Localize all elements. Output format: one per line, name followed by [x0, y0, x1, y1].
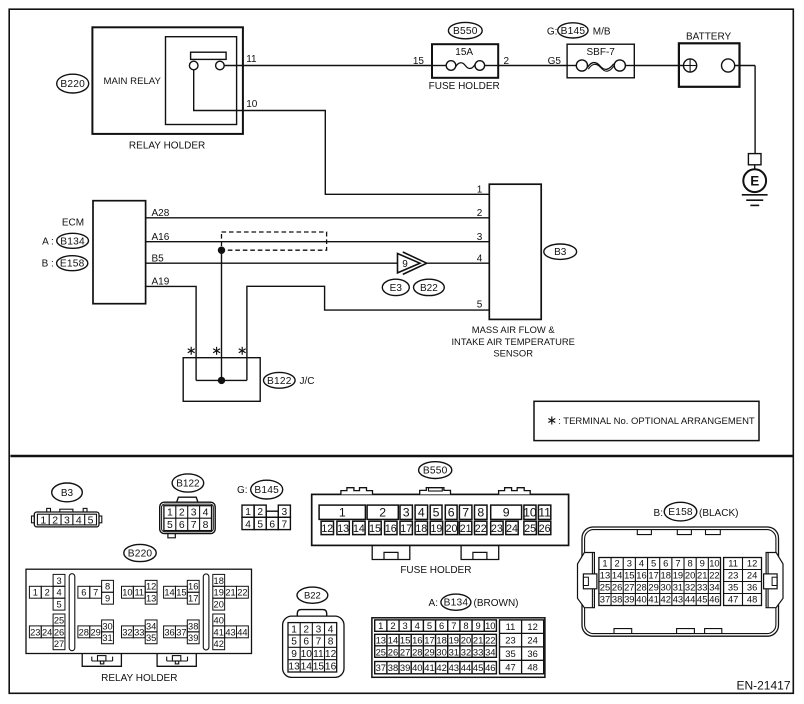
svg-text:14: 14 — [388, 635, 398, 646]
svg-text:24: 24 — [506, 523, 518, 535]
svg-text:B22: B22 — [304, 591, 321, 602]
svg-text:28: 28 — [79, 627, 89, 637]
svg-text:13: 13 — [288, 661, 300, 672]
svg-text:19: 19 — [673, 570, 683, 581]
svg-text:15: 15 — [369, 523, 381, 535]
svg-text:22: 22 — [237, 588, 247, 598]
svg-text:21: 21 — [460, 523, 472, 535]
svg-text:E158: E158 — [60, 259, 85, 270]
svg-text:M/B: M/B — [593, 26, 611, 37]
svg-text:2: 2 — [45, 588, 50, 598]
svg-text:5: 5 — [167, 520, 173, 531]
svg-text:MASS AIR FLOW &: MASS AIR FLOW & — [472, 324, 556, 335]
svg-text:8: 8 — [203, 520, 209, 531]
svg-text:7: 7 — [462, 505, 469, 519]
svg-text:27: 27 — [54, 639, 64, 649]
svg-text:B134: B134 — [60, 236, 85, 247]
svg-text:9: 9 — [503, 505, 510, 519]
svg-text:11: 11 — [246, 54, 257, 65]
svg-text:10: 10 — [301, 649, 313, 660]
svg-text:25: 25 — [54, 615, 64, 625]
svg-text:13: 13 — [146, 594, 156, 604]
svg-text:16: 16 — [188, 582, 198, 592]
svg-text:3: 3 — [282, 507, 288, 518]
svg-text:19: 19 — [449, 635, 459, 646]
svg-text:B22: B22 — [420, 283, 438, 294]
svg-text:22: 22 — [709, 570, 719, 581]
svg-text:20: 20 — [685, 570, 695, 581]
svg-text:J/C: J/C — [300, 376, 315, 387]
svg-text:4: 4 — [203, 508, 209, 519]
svg-text:26: 26 — [54, 627, 64, 637]
svg-text:5: 5 — [291, 637, 297, 648]
svg-text:22: 22 — [485, 635, 495, 646]
svg-text:6: 6 — [448, 505, 455, 519]
svg-text:ECM: ECM — [62, 217, 84, 228]
svg-text:30: 30 — [102, 621, 112, 631]
svg-text:15: 15 — [176, 588, 186, 598]
svg-text:37: 37 — [600, 594, 610, 605]
svg-text:B5: B5 — [152, 253, 165, 264]
svg-text:5: 5 — [477, 300, 483, 311]
svg-text:4: 4 — [418, 505, 425, 519]
svg-text:3: 3 — [403, 505, 410, 519]
svg-text:26: 26 — [539, 523, 551, 535]
svg-text:9: 9 — [291, 649, 297, 660]
svg-text:17: 17 — [648, 570, 658, 581]
svg-text:46: 46 — [709, 594, 719, 605]
svg-text:4: 4 — [76, 515, 82, 527]
svg-text:29: 29 — [648, 582, 658, 593]
svg-text:11: 11 — [506, 621, 516, 632]
svg-text:44: 44 — [685, 594, 695, 605]
svg-text:13: 13 — [376, 635, 386, 646]
svg-text:27: 27 — [400, 646, 410, 657]
svg-text:25: 25 — [524, 523, 536, 535]
svg-text:6: 6 — [439, 620, 444, 631]
svg-text:6: 6 — [81, 588, 86, 598]
svg-text:21: 21 — [473, 635, 483, 646]
svg-text:31: 31 — [102, 633, 112, 643]
svg-text:E158: E158 — [668, 507, 693, 518]
svg-text:26: 26 — [388, 646, 398, 657]
svg-text:5: 5 — [88, 515, 94, 527]
svg-text:B122: B122 — [267, 376, 292, 387]
svg-text:6: 6 — [303, 637, 309, 648]
svg-text:14: 14 — [612, 570, 622, 581]
svg-text:39: 39 — [188, 633, 198, 643]
svg-text:17: 17 — [424, 635, 434, 646]
svg-text:4: 4 — [415, 620, 420, 631]
svg-text:36: 36 — [527, 648, 537, 659]
svg-text:36: 36 — [747, 582, 757, 593]
svg-text:: TERMINAL No. OPTIONAL ARRANG: : TERMINAL No. OPTIONAL ARRANGEMENT — [558, 416, 755, 427]
svg-text:41: 41 — [214, 627, 224, 637]
svg-text:24: 24 — [527, 635, 537, 646]
svg-text:37: 37 — [376, 662, 386, 673]
svg-text:12: 12 — [146, 582, 156, 592]
svg-text:8: 8 — [477, 505, 484, 519]
svg-text:EN-21417: EN-21417 — [736, 678, 790, 692]
svg-text:E: E — [750, 174, 759, 189]
svg-text:20: 20 — [214, 600, 224, 610]
svg-text:11: 11 — [134, 588, 144, 598]
svg-text:8: 8 — [328, 637, 334, 648]
svg-text:17: 17 — [400, 523, 412, 535]
svg-text:32: 32 — [685, 582, 695, 593]
svg-text:MAIN RELAY: MAIN RELAY — [103, 76, 161, 87]
svg-text:3: 3 — [316, 624, 322, 635]
svg-text:4: 4 — [328, 624, 334, 635]
svg-text:2: 2 — [179, 508, 185, 519]
svg-text:7: 7 — [675, 558, 680, 569]
svg-text:A19: A19 — [152, 277, 170, 288]
svg-text:4: 4 — [477, 253, 483, 264]
svg-text:16: 16 — [636, 570, 646, 581]
svg-text:47: 47 — [505, 661, 515, 672]
svg-text:30: 30 — [661, 582, 671, 593]
svg-text:11: 11 — [313, 649, 324, 660]
svg-text:BATTERY: BATTERY — [686, 32, 732, 43]
svg-text:48: 48 — [527, 661, 537, 672]
svg-text:(BROWN): (BROWN) — [474, 598, 519, 609]
svg-text:16: 16 — [412, 635, 422, 646]
svg-text:39: 39 — [400, 662, 410, 673]
svg-text:35: 35 — [728, 582, 738, 593]
svg-text:4: 4 — [245, 519, 251, 530]
svg-text:RELAY HOLDER: RELAY HOLDER — [101, 673, 177, 684]
svg-text:12: 12 — [321, 523, 333, 535]
svg-text:15: 15 — [413, 56, 425, 67]
svg-text:15: 15 — [313, 661, 325, 672]
svg-text:28: 28 — [412, 646, 422, 657]
svg-text:10: 10 — [523, 505, 537, 519]
svg-text:6: 6 — [179, 520, 185, 531]
svg-text:RELAY HOLDER: RELAY HOLDER — [129, 141, 205, 152]
svg-text:19: 19 — [214, 588, 224, 598]
svg-text:2: 2 — [615, 558, 620, 569]
svg-text:1: 1 — [339, 505, 346, 519]
svg-text:32: 32 — [461, 646, 471, 657]
svg-text:21: 21 — [225, 588, 235, 598]
svg-text:A :: A : — [42, 236, 54, 247]
svg-text:46: 46 — [485, 662, 495, 673]
svg-text:28: 28 — [636, 582, 646, 593]
svg-text:15: 15 — [624, 570, 634, 581]
svg-text:7: 7 — [191, 520, 197, 531]
svg-text:33: 33 — [697, 582, 707, 593]
svg-text:1: 1 — [378, 620, 383, 631]
svg-text:2: 2 — [390, 620, 395, 631]
svg-text:A28: A28 — [152, 208, 170, 219]
svg-text:45: 45 — [473, 662, 483, 673]
svg-text:B145: B145 — [254, 485, 279, 496]
svg-text:2: 2 — [303, 624, 309, 635]
svg-text:G:: G: — [237, 485, 248, 496]
svg-text:25: 25 — [376, 646, 386, 657]
svg-text:16: 16 — [385, 523, 397, 535]
svg-text:14: 14 — [301, 661, 313, 672]
svg-text:22: 22 — [475, 523, 487, 535]
svg-text:1: 1 — [245, 507, 251, 518]
svg-text:FUSE HOLDER: FUSE HOLDER — [429, 81, 500, 92]
svg-text:23: 23 — [505, 635, 515, 646]
svg-text:23: 23 — [30, 627, 40, 637]
svg-text:43: 43 — [449, 662, 459, 673]
svg-text:E3: E3 — [390, 283, 403, 294]
svg-text:41: 41 — [424, 662, 434, 673]
svg-text:38: 38 — [612, 594, 622, 605]
svg-text:17: 17 — [188, 594, 198, 604]
svg-text:6: 6 — [663, 558, 668, 569]
svg-text:7: 7 — [316, 637, 322, 648]
svg-text:10: 10 — [122, 588, 132, 598]
svg-text:48: 48 — [747, 594, 757, 605]
svg-text:7: 7 — [93, 588, 98, 598]
svg-text:A16: A16 — [152, 232, 170, 243]
svg-text:24: 24 — [42, 627, 52, 637]
svg-text:20: 20 — [461, 635, 471, 646]
svg-text:35: 35 — [146, 633, 156, 643]
svg-text:9: 9 — [402, 259, 408, 270]
svg-text:31: 31 — [673, 582, 683, 593]
svg-text:1: 1 — [477, 185, 483, 196]
svg-text:12: 12 — [527, 621, 537, 632]
svg-text:9: 9 — [700, 558, 705, 569]
svg-text:25: 25 — [600, 582, 610, 593]
svg-text:38: 38 — [188, 621, 198, 631]
svg-text:6: 6 — [269, 519, 275, 530]
svg-text:41: 41 — [648, 594, 658, 605]
svg-text:15A: 15A — [455, 47, 473, 58]
svg-text:27: 27 — [624, 582, 634, 593]
svg-text:42: 42 — [214, 639, 224, 649]
svg-text:(BLACK): (BLACK) — [699, 508, 738, 519]
svg-text:2: 2 — [379, 505, 386, 519]
svg-text:B:: B: — [654, 508, 663, 519]
svg-text:FUSE HOLDER: FUSE HOLDER — [400, 565, 471, 576]
svg-text:42: 42 — [436, 662, 446, 673]
svg-text:11: 11 — [538, 505, 551, 519]
svg-text:5: 5 — [427, 620, 432, 631]
svg-text:B220: B220 — [128, 549, 153, 560]
svg-text:7: 7 — [282, 519, 288, 530]
svg-text:10: 10 — [709, 558, 719, 569]
svg-text:44: 44 — [237, 627, 247, 637]
svg-text:3: 3 — [627, 558, 632, 569]
svg-text:B550: B550 — [423, 466, 448, 477]
svg-text:SENSOR: SENSOR — [493, 347, 533, 358]
svg-text:33: 33 — [473, 646, 483, 657]
svg-text:3: 3 — [56, 576, 61, 586]
svg-text:43: 43 — [225, 627, 235, 637]
svg-text:18: 18 — [415, 523, 427, 535]
svg-text:24: 24 — [747, 570, 757, 581]
svg-text:31: 31 — [449, 646, 459, 657]
svg-text:3: 3 — [477, 232, 483, 243]
svg-text:34: 34 — [146, 621, 156, 631]
svg-text:12: 12 — [747, 558, 757, 569]
svg-text:9: 9 — [476, 620, 481, 631]
svg-text:5: 5 — [56, 600, 61, 610]
svg-text:23: 23 — [728, 570, 738, 581]
svg-text:9: 9 — [105, 594, 110, 604]
svg-text:7: 7 — [451, 620, 456, 631]
svg-text:23: 23 — [491, 523, 503, 535]
svg-text:38: 38 — [388, 662, 398, 673]
svg-text:B134: B134 — [444, 598, 469, 609]
svg-text:15: 15 — [400, 635, 410, 646]
svg-text:33: 33 — [134, 627, 144, 637]
svg-text:13: 13 — [600, 570, 610, 581]
svg-text:8: 8 — [687, 558, 692, 569]
svg-text:B145: B145 — [561, 26, 586, 37]
svg-text:2: 2 — [257, 507, 263, 518]
svg-text:40: 40 — [636, 594, 646, 605]
svg-text:19: 19 — [431, 523, 443, 535]
svg-text:4: 4 — [639, 558, 644, 569]
svg-text:18: 18 — [436, 635, 446, 646]
svg-text:8: 8 — [463, 620, 468, 631]
svg-text:37: 37 — [176, 627, 186, 637]
svg-text:2: 2 — [52, 515, 58, 527]
svg-text:11: 11 — [728, 558, 738, 569]
svg-text:21: 21 — [697, 570, 707, 581]
svg-text:14: 14 — [353, 523, 365, 535]
svg-text:3: 3 — [191, 508, 197, 519]
svg-text:16: 16 — [325, 661, 337, 672]
svg-text:INTAKE AIR TEMPERATURE: INTAKE AIR TEMPERATURE — [451, 336, 574, 347]
svg-text:40: 40 — [214, 615, 224, 625]
svg-text:14: 14 — [164, 588, 174, 598]
svg-text:5: 5 — [257, 519, 263, 530]
svg-text:44: 44 — [461, 662, 471, 673]
svg-text:34: 34 — [485, 646, 495, 657]
svg-text:43: 43 — [673, 594, 683, 605]
svg-text:29: 29 — [424, 646, 434, 657]
svg-text:47: 47 — [728, 594, 738, 605]
svg-text:35: 35 — [505, 648, 515, 659]
svg-text:12: 12 — [325, 649, 337, 660]
svg-text:29: 29 — [91, 627, 101, 637]
svg-text:1: 1 — [602, 558, 607, 569]
svg-text:30: 30 — [436, 646, 446, 657]
svg-text:B122: B122 — [176, 478, 200, 489]
svg-text:1: 1 — [291, 624, 297, 635]
svg-text:4: 4 — [56, 588, 61, 598]
svg-text:26: 26 — [612, 582, 622, 593]
svg-text:1: 1 — [167, 508, 173, 519]
svg-text:3: 3 — [64, 515, 70, 527]
svg-text:18: 18 — [661, 570, 671, 581]
svg-text:40: 40 — [412, 662, 422, 673]
svg-text:8: 8 — [105, 582, 110, 592]
svg-text:45: 45 — [697, 594, 707, 605]
svg-text:10: 10 — [485, 620, 495, 631]
svg-text:1: 1 — [40, 515, 46, 527]
svg-text:3: 3 — [403, 620, 408, 631]
svg-text:36: 36 — [164, 627, 174, 637]
svg-text:39: 39 — [624, 594, 634, 605]
svg-text:G:: G: — [547, 26, 558, 37]
svg-text:SBF-7: SBF-7 — [587, 47, 616, 58]
svg-text:A:: A: — [429, 598, 438, 609]
svg-text:B :: B : — [42, 259, 54, 270]
svg-text:B550: B550 — [453, 26, 478, 37]
svg-text:B3: B3 — [61, 488, 74, 499]
svg-text:13: 13 — [337, 523, 349, 535]
svg-text:20: 20 — [446, 523, 458, 535]
svg-text:1: 1 — [33, 588, 38, 598]
svg-text:34: 34 — [709, 582, 719, 593]
svg-text:5: 5 — [651, 558, 656, 569]
svg-text:42: 42 — [661, 594, 671, 605]
svg-text:5: 5 — [433, 505, 440, 519]
svg-text:32: 32 — [122, 627, 132, 637]
svg-text:18: 18 — [214, 576, 224, 586]
svg-text:B3: B3 — [554, 247, 567, 258]
svg-text:2: 2 — [477, 208, 483, 219]
svg-text:B220: B220 — [60, 79, 85, 90]
svg-text:G5: G5 — [548, 56, 562, 67]
svg-text:10: 10 — [246, 99, 258, 110]
